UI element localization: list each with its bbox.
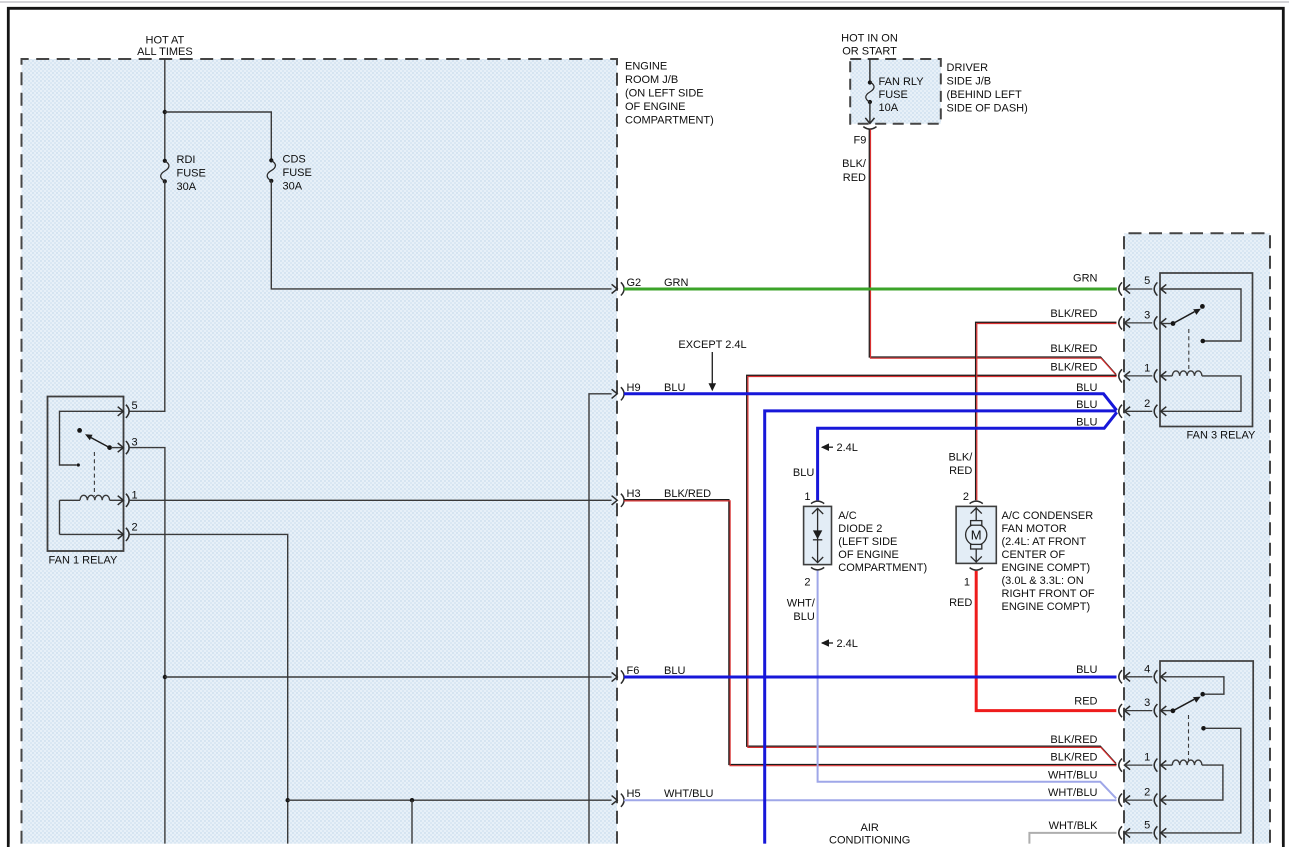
wire stub down from H5 junction — [411, 800, 413, 844]
fan 3 relay mechanical link — [1188, 329, 1190, 373]
wire WHT/BLU diode to fan 2 relay pin 2 — [818, 571, 1117, 799]
connector H3 — [612, 488, 641, 507]
svg-text:BLK/RED: BLK/RED — [1050, 308, 1097, 320]
svg-text:ENGINE COMPT): ENGINE COMPT) — [1002, 562, 1091, 574]
svg-text:G2: G2 — [627, 277, 642, 289]
wire fuse to box edge with arrow — [865, 102, 874, 124]
fan 1 relay pin 3 inner wire — [111, 447, 123, 449]
svg-text:30A: 30A — [177, 181, 197, 193]
svg-text:(2.4L: AT FRONT: (2.4L: AT FRONT — [1002, 536, 1087, 548]
fuse CDS 30A — [267, 158, 275, 183]
svg-text:CDS: CDS — [283, 154, 306, 166]
svg-text:1: 1 — [132, 489, 138, 501]
label ENGINE ROOM J/B — [625, 61, 714, 127]
svg-text:BLK/RED: BLK/RED — [1050, 752, 1097, 764]
svg-text:WHT/BLU: WHT/BLU — [1048, 787, 1098, 799]
svg-text:BLU: BLU — [1076, 382, 1097, 394]
svg-text:BLU: BLU — [1076, 664, 1097, 676]
svg-text:ENGINE COMPT): ENGINE COMPT) — [1002, 601, 1091, 613]
label BLK/RED F9 wire — [842, 158, 867, 184]
svg-text:H5: H5 — [627, 788, 641, 800]
driver side J/B box fill — [850, 59, 941, 124]
svg-text:30A: 30A — [283, 180, 303, 192]
fan 1 relay pin 2 inner wire — [60, 533, 124, 535]
svg-text:ROOM J/B: ROOM J/B — [625, 74, 678, 86]
svg-text:RED: RED — [843, 172, 866, 184]
svg-text:FUSE: FUSE — [879, 89, 908, 101]
svg-text:WHT/: WHT/ — [787, 598, 816, 610]
svg-text:HOT AT: HOT AT — [146, 35, 185, 47]
svg-text:RIGHT FRONT OF: RIGHT FRONT OF — [1002, 588, 1095, 600]
power label HOT AT ALL TIMES — [137, 35, 193, 58]
fan 2 relay pin 2 connector — [1119, 787, 1166, 807]
top gray hairline — [0, 1, 1289, 3]
wire junction to H5 — [288, 799, 612, 801]
svg-text:F6: F6 — [627, 665, 640, 677]
svg-text:FUSE: FUSE — [177, 168, 206, 180]
svg-text:2: 2 — [804, 577, 810, 589]
svg-text:BLU: BLU — [793, 611, 814, 623]
node junction H5 branch — [286, 798, 290, 802]
svg-text:F9: F9 — [854, 135, 867, 147]
svg-text:5: 5 — [132, 400, 138, 412]
connector H5 — [612, 788, 641, 807]
fan 1 relay coil — [60, 495, 124, 534]
relay U3 fan 2 relay inner box — [1160, 661, 1253, 846]
svg-text:EXCEPT 2.4L: EXCEPT 2.4L — [678, 339, 746, 351]
svg-text:OR START: OR START — [842, 45, 897, 57]
svg-text:BLK/RED: BLK/RED — [1050, 734, 1097, 746]
motor M1 A/C condenser fan motor — [956, 501, 996, 570]
connector H9 — [612, 382, 641, 401]
fan 2 relay pin 4 inner wire to fixed contact — [1161, 677, 1224, 697]
wire hot feed into fan rly fuse — [869, 59, 871, 83]
svg-text:GRN: GRN — [1073, 273, 1098, 285]
node junction at feed split — [163, 110, 167, 114]
svg-text:1: 1 — [804, 491, 810, 503]
wire RDI fuse down to fan 1 relay pin 5 — [129, 181, 165, 411]
svg-text:BLU: BLU — [664, 382, 685, 394]
svg-text:RED: RED — [949, 597, 972, 609]
svg-text:3: 3 — [1144, 697, 1150, 709]
node junction on H5 wire — [410, 798, 414, 802]
wire BLK/RED H3 to fan 2 relay pin 1 — [624, 500, 1117, 766]
svg-text:BLK/: BLK/ — [842, 158, 867, 170]
svg-text:(LEFT SIDE: (LEFT SIDE — [838, 536, 897, 548]
svg-text:2.4L: 2.4L — [837, 442, 858, 454]
svg-text:ALL TIMES: ALL TIMES — [137, 46, 193, 58]
connector F6 — [612, 665, 640, 684]
svg-text:COMPARTMENT): COMPARTMENT) — [625, 115, 714, 127]
svg-text:CENTER OF: CENTER OF — [1002, 549, 1066, 561]
engine room J/B box fill — [22, 59, 618, 844]
svg-text:A/C: A/C — [838, 510, 856, 522]
wire BLU a/c diode to fan 3 relay pin 2 — [818, 412, 1117, 500]
svg-text:BLU: BLU — [793, 467, 814, 479]
wire BLU H9 to fan 3 relay pin 2 — [624, 394, 1117, 411]
wire WHT/BLK riser to fan 2 relay pin 5 — [1029, 833, 1116, 844]
svg-text:RED: RED — [949, 465, 972, 477]
fan 2 relay coil — [1161, 760, 1223, 800]
svg-text:HOT IN ON: HOT IN ON — [841, 32, 898, 44]
svg-text:FAN RLY: FAN RLY — [879, 76, 925, 88]
relay side J/B box fill — [1124, 233, 1270, 844]
power label HOT IN ON OR START — [841, 32, 898, 57]
svg-text:1: 1 — [964, 577, 970, 589]
svg-text:RDI: RDI — [177, 154, 196, 166]
wire fan 1 relay pin 1 to H3 — [129, 499, 612, 501]
fan 3 relay switch contact dot — [1200, 304, 1205, 309]
wire BLK/RED fan 3 relay pin 1 to fan 2 relay pin 1 — [747, 375, 1117, 764]
svg-text:GRN: GRN — [664, 277, 689, 289]
svg-text:5: 5 — [1144, 275, 1150, 287]
label FAN RLY FUSE 10A — [879, 76, 925, 114]
fan 1 relay switch contact dot — [77, 428, 82, 433]
fan 2 relay pin 4 connector — [1119, 663, 1166, 683]
label A/C DIODE 2 description — [838, 510, 927, 574]
svg-text:1: 1 — [1144, 752, 1150, 764]
fan 1 relay mechanical link — [93, 452, 95, 496]
fan 2 relay common contact to pin 5 — [1161, 726, 1241, 833]
label AIR CONDITIONING — [829, 822, 910, 846]
svg-text:FAN 3 RELAY: FAN 3 RELAY — [1187, 429, 1257, 441]
svg-text:A/C CONDENSER: A/C CONDENSER — [1002, 510, 1094, 522]
svg-text:OF ENGINE: OF ENGINE — [625, 101, 686, 113]
label A/C CONDENSER FAN MOTOR description — [1002, 510, 1095, 613]
svg-text:1: 1 — [1144, 362, 1150, 374]
fan 2 relay mechanical link — [1188, 715, 1190, 761]
svg-text:SIDE OF DASH): SIDE OF DASH) — [947, 103, 1028, 115]
svg-text:3: 3 — [132, 437, 138, 449]
svg-text:COMPARTMENT): COMPARTMENT) — [838, 562, 927, 574]
fan 2 relay switch arm from pin 3 — [1161, 697, 1201, 714]
fan 2 relay pin 3 connector — [1119, 697, 1166, 717]
fan 2 relay pin 5 connector — [1119, 819, 1166, 839]
svg-text:FUSE: FUSE — [283, 167, 312, 179]
svg-text:WHT/BLU: WHT/BLU — [664, 788, 714, 800]
fan 3 relay coil — [1161, 371, 1241, 411]
svg-text:WHT/BLK: WHT/BLK — [1049, 820, 1099, 832]
svg-text:BLU: BLU — [664, 665, 685, 677]
svg-text:BLU: BLU — [1076, 399, 1097, 411]
svg-text:FAN MOTOR: FAN MOTOR — [1002, 523, 1067, 535]
relay U2 FAN 3 RELAY inner box — [1160, 273, 1253, 427]
fan 2 relay pin 1 connector — [1119, 752, 1166, 772]
svg-text:DRIVER: DRIVER — [947, 62, 989, 74]
wire GRN G2 to fan 3 relay pin 5 — [624, 288, 1117, 291]
connector F9 arc — [863, 127, 876, 130]
fan 3 relay pin 2 connector — [1119, 398, 1166, 418]
svg-text:H9: H9 — [627, 382, 641, 394]
fan 1 relay pin arrows and connector arcs — [118, 405, 129, 541]
wire WHT/BLU H5 to fan 2 relay pin 2 — [624, 799, 1117, 801]
fan 1 relay switch arm from pin 3 — [85, 434, 112, 450]
svg-text:BLK/RED: BLK/RED — [1050, 362, 1097, 374]
svg-text:BLK/RED: BLK/RED — [664, 488, 711, 500]
svg-text:WHT/BLU: WHT/BLU — [1048, 769, 1098, 781]
wire fan 1 relay pin 2 down trunk — [129, 534, 288, 843]
fan 3 relay pin 5 connector — [1119, 275, 1166, 296]
svg-text:4: 4 — [1144, 663, 1150, 675]
fan 3 relay pin 1 connector — [1119, 362, 1166, 382]
fan 1 relay pin 5 inner wire and fixed contact — [60, 411, 124, 466]
label CDS FUSE 30A — [283, 154, 312, 193]
svg-text:(BEHIND LEFT: (BEHIND LEFT — [947, 89, 1022, 101]
label WHT/BLU below diode — [787, 598, 816, 623]
wire fan 1 relay pin 3 down left trunk — [129, 448, 165, 844]
node junction F6 branch — [163, 675, 167, 679]
svg-text:RED: RED — [1074, 696, 1097, 708]
wire BLK/RED fan 3 relay pin 3 to condenser fan motor — [976, 322, 1117, 500]
wire junction to F6 — [165, 676, 612, 678]
wire BLU fan 3 relay pin 2 down to air conditioning — [765, 411, 1117, 844]
diode D1 A/C DIODE 2 — [804, 501, 832, 570]
label EXCEPT 2.4L with arrow — [678, 339, 746, 391]
svg-text:OF ENGINE: OF ENGINE — [838, 549, 899, 561]
svg-text:2.4L: 2.4L — [837, 638, 858, 650]
relay side J/B dashed border — [1124, 233, 1270, 844]
svg-text:M: M — [971, 528, 982, 543]
relay U1 FAN 1 RELAY box — [48, 397, 124, 552]
label BLK/RED above motor — [948, 451, 973, 477]
svg-text:BLU: BLU — [1076, 416, 1097, 428]
svg-text:DIODE 2: DIODE 2 — [838, 523, 882, 535]
label DRIVER SIDE J/B — [947, 62, 1028, 115]
svg-text:2: 2 — [963, 491, 969, 503]
svg-text:ENGINE: ENGINE — [625, 61, 667, 73]
wire CDS fuse to G2 — [271, 181, 611, 289]
fuse FAN RLY 10A — [866, 80, 874, 104]
bottom crop strip — [10, 844, 1282, 847]
fan 3 relay switch arm from pin 3 — [1161, 309, 1201, 326]
svg-text:BLK/: BLK/ — [948, 451, 973, 463]
wire BLK/RED F9 to fan 3 relay pin 1 — [869, 130, 1116, 376]
label 2.4L arrow upper — [821, 442, 858, 454]
wire branch to CDS fuse — [165, 112, 271, 160]
engine room J/B dashed border — [22, 59, 618, 844]
fan 3 relay pin 3 connector — [1119, 309, 1166, 329]
fuse RDI 30A — [161, 159, 169, 184]
svg-text:(3.0L & 3.3L: ON: (3.0L & 3.3L: ON — [1002, 575, 1084, 587]
svg-text:BLK/RED: BLK/RED — [1050, 343, 1097, 355]
driver side J/B dashed border — [850, 59, 941, 124]
wire BLU F6 to fan 2 relay pin 4 — [624, 676, 1117, 679]
svg-text:10A: 10A — [879, 102, 899, 114]
svg-text:(ON LEFT SIDE: (ON LEFT SIDE — [625, 88, 704, 100]
wire H9 riser from bottom — [589, 394, 612, 844]
svg-text:FAN 1 RELAY: FAN 1 RELAY — [49, 555, 119, 567]
label RDI FUSE 30A — [177, 154, 206, 193]
fan 3 relay pin 5 inner wire to fixed contact — [1161, 289, 1241, 343]
svg-text:3: 3 — [1144, 309, 1150, 321]
svg-text:5: 5 — [1144, 819, 1150, 831]
svg-text:2: 2 — [1144, 787, 1150, 799]
svg-text:AIR: AIR — [861, 822, 879, 834]
label 2.4L arrow lower — [821, 638, 858, 650]
svg-text:SIDE J/B: SIDE J/B — [947, 76, 992, 88]
wire RED condenser fan motor to fan 2 relay pin 3 — [976, 571, 1116, 711]
svg-text:H3: H3 — [627, 488, 641, 500]
svg-text:2: 2 — [132, 522, 138, 534]
wire from HOT AT ALL TIMES down to RDI fuse — [164, 59, 166, 161]
connector G2 — [612, 277, 642, 296]
svg-text:2: 2 — [1144, 398, 1150, 410]
